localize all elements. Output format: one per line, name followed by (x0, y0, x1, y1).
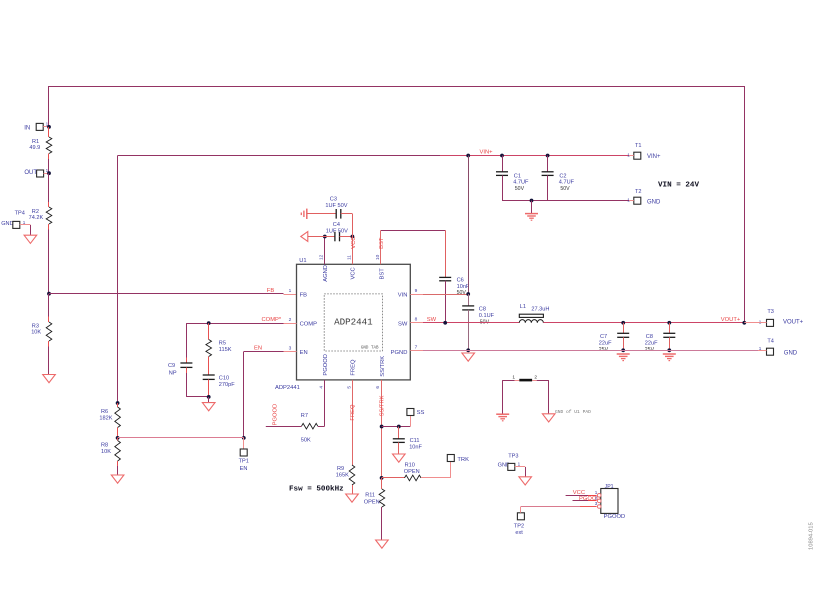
svg-text:L1: L1 (520, 304, 526, 310)
node SW BST (443, 321, 447, 325)
node EN TP1 (242, 436, 246, 440)
test point TP1 (239, 449, 249, 472)
resistor R3 (46, 294, 52, 374)
node C7 pgnd (621, 348, 625, 352)
svg-text:COMP*: COMP* (262, 317, 282, 323)
svg-text:OUT: OUT (24, 170, 37, 176)
svg-text:PGOOD: PGOOD (273, 404, 279, 426)
wire jumper left leg (502, 380, 504, 414)
svg-text:OPEN: OPEN (364, 499, 380, 505)
svg-text:182K: 182K (99, 416, 112, 422)
svg-text:EN: EN (240, 466, 248, 472)
svg-text:TRK: TRK (457, 457, 469, 463)
test point TRK pad (447, 455, 469, 464)
svg-text:1UF 50V: 1UF 50V (325, 203, 347, 209)
capacitor C2 (542, 156, 554, 201)
wire OUT pad stub (44, 173, 49, 175)
node EN divider (116, 436, 120, 440)
ground TP3 (519, 477, 532, 485)
resistor R1 (46, 127, 52, 173)
svg-text:T1: T1 (635, 143, 642, 149)
svg-text:27.3uH: 27.3uH (531, 307, 549, 313)
ground C8out bars (663, 353, 676, 355)
svg-text:50V: 50V (560, 186, 570, 192)
wire TP3 down (525, 467, 527, 477)
capacitor C4 (335, 232, 353, 242)
svg-text:COMP: COMP (300, 322, 318, 328)
svg-text:C6: C6 (457, 277, 464, 283)
ground R8 (111, 475, 124, 483)
capacitor C9 (180, 323, 192, 397)
resistor R9 (349, 465, 355, 494)
svg-text:C8: C8 (479, 306, 486, 312)
svg-text:NP: NP (169, 371, 177, 377)
ground input bars (525, 213, 538, 215)
svg-text:ext: ext (515, 530, 523, 536)
svg-text:4.7UF: 4.7UF (513, 180, 529, 186)
node C8 pgnd (466, 348, 470, 352)
svg-text:FB: FB (267, 288, 275, 294)
svg-text:1: 1 (595, 490, 598, 495)
node FB junction (47, 292, 51, 296)
wire FB net (49, 293, 284, 295)
wire top rail (VOUT sense loop) (49, 86, 744, 88)
svg-text:C4: C4 (333, 222, 340, 228)
svg-text:R6: R6 (101, 409, 108, 415)
svg-text:10nF: 10nF (409, 444, 422, 450)
wire T3 stub (744, 322, 766, 324)
svg-text:SS/TRK: SS/TRK (380, 356, 386, 377)
terminal T1 pad (627, 143, 641, 159)
svg-text:TP3: TP3 (508, 454, 518, 460)
svg-text:SS/TRK: SS/TRK (379, 395, 385, 416)
wire VCC pin 11 (352, 237, 354, 265)
wire input gnd stem (531, 201, 533, 214)
jumper pgnd-agnd tie (503, 374, 549, 381)
svg-text:C7: C7 (600, 334, 607, 340)
svg-text:50V: 50V (457, 290, 467, 296)
wire T2 stub (629, 200, 634, 202)
test point TP3 (498, 454, 521, 471)
ground C8 bypass (462, 353, 475, 361)
svg-text:1: 1 (627, 152, 630, 157)
wire AGND pin 12 (324, 237, 326, 265)
svg-text:R7: R7 (301, 413, 308, 419)
svg-text:FREQ: FREQ (351, 359, 357, 376)
svg-text:50V: 50V (515, 186, 525, 192)
node IN junction (47, 125, 51, 129)
svg-text:R5: R5 (219, 341, 226, 347)
wire TP4 stub (20, 224, 31, 226)
wire PGOOD stub left (266, 426, 302, 428)
svg-text:C11: C11 (410, 438, 420, 444)
svg-text:GND of U1 PAD: GND of U1 PAD (555, 409, 591, 415)
terminal IN pad (36, 121, 48, 130)
wire input gnd bus (502, 200, 629, 202)
svg-text:1UF 50V: 1UF 50V (326, 229, 348, 235)
svg-text:10nF: 10nF (457, 284, 470, 290)
svg-text:VIN+: VIN+ (480, 149, 494, 155)
terminal T4 pad (759, 338, 774, 355)
wire TP1 stub (243, 438, 245, 449)
wire EN drop (243, 352, 245, 438)
node COMP R5 top (207, 321, 211, 325)
test point TP2 (514, 513, 525, 536)
node VOUT (742, 321, 746, 325)
svg-text:TP4: TP4 (15, 211, 25, 217)
wire COMP net (209, 323, 284, 325)
node R6 top (116, 401, 120, 405)
node C8out top (667, 321, 671, 325)
svg-text:VCC: VCC (351, 267, 357, 279)
svg-text:GND: GND (784, 351, 798, 357)
svg-text:GND: GND (1, 221, 13, 227)
wire arrow to C4 (308, 236, 335, 238)
wire EN net (244, 351, 284, 353)
svg-text:C3: C3 (330, 197, 337, 203)
wire gnd to C3 (307, 213, 336, 215)
node VIN C8 (466, 292, 470, 296)
wire COMP gnd stem (208, 397, 210, 403)
svg-text:4.7UF: 4.7UF (559, 180, 575, 186)
svg-text:GND TAB: GND TAB (361, 346, 379, 350)
resistor R8 (115, 438, 121, 475)
svg-text:BST: BST (379, 268, 385, 280)
svg-text:SS: SS (417, 410, 425, 416)
wire SS branch (382, 426, 411, 428)
wire VIN+ rail left drop (117, 156, 119, 404)
svg-text:EN: EN (254, 345, 262, 351)
wire SS/TRK pin 6 drop (381, 380, 383, 478)
svg-text:2: 2 (289, 317, 292, 323)
svg-text:6: 6 (375, 386, 381, 389)
svg-text:OPEN: OPEN (404, 469, 420, 475)
node input gnd (530, 199, 534, 203)
wire PGND pin stub (410, 350, 423, 352)
svg-text:AGND: AGND (323, 265, 329, 282)
wire COMP pin stub (284, 323, 297, 325)
svg-text:PGND: PGND (391, 350, 408, 356)
svg-text:Fsw = 500kHz: Fsw = 500kHz (289, 485, 344, 493)
svg-text:3: 3 (289, 345, 292, 351)
wire C3 to VCC node (352, 214, 354, 237)
svg-text:FREQ: FREQ (350, 404, 356, 421)
svg-text:VIN: VIN (398, 293, 408, 299)
svg-text:10K: 10K (101, 449, 111, 455)
node VIN pin column top (466, 154, 470, 158)
node C7 top (621, 321, 625, 325)
capacitor C7 (617, 323, 629, 351)
svg-text:T3: T3 (767, 309, 774, 315)
svg-text:9: 9 (415, 288, 418, 294)
svg-text:22uF: 22uF (645, 341, 658, 347)
resistor R10 (382, 475, 451, 481)
svg-text:1: 1 (518, 461, 521, 466)
capacitor C11 (393, 427, 405, 454)
svg-text:JP1: JP1 (605, 484, 614, 490)
svg-text:C8: C8 (646, 334, 653, 340)
svg-text:1: 1 (512, 374, 515, 380)
capacitor C1 (496, 156, 508, 201)
wire PGND rail (423, 350, 758, 352)
svg-text:EN: EN (300, 350, 308, 356)
U1 pin names (300, 265, 408, 377)
terminal OUT pad (37, 168, 49, 177)
resistor R2 (46, 173, 52, 294)
svg-text:R11: R11 (365, 492, 375, 498)
wire SS pad riser (410, 415, 412, 426)
svg-text:SW: SW (398, 322, 408, 328)
svg-text:11: 11 (346, 255, 352, 260)
wire PGOOD pin 4 drop (324, 380, 326, 426)
svg-text:2: 2 (534, 374, 537, 380)
svg-text:VIN+: VIN+ (647, 154, 661, 160)
wire JP1 pin2 net (573, 500, 589, 502)
test point SS pad (407, 409, 425, 417)
ground TP4 (24, 235, 37, 243)
resistor R5 (206, 323, 212, 375)
resistor R11 (379, 478, 385, 540)
node OUT junction (47, 171, 51, 175)
svg-text:R8: R8 (101, 442, 108, 448)
svg-text:ADP2441: ADP2441 (334, 317, 373, 328)
svg-text:5: 5 (346, 386, 352, 389)
svg-text:1: 1 (627, 197, 630, 202)
wire L1 to VOUT (543, 322, 744, 324)
svg-text:IN: IN (24, 125, 30, 131)
svg-text:10K: 10K (31, 329, 41, 335)
svg-text:74.2K: 74.2K (29, 215, 44, 221)
svg-text:TP1: TP1 (239, 459, 249, 465)
ground C7 bars (617, 353, 630, 355)
ground C3 bars (306, 209, 308, 219)
wire right side of top rail down to VOUT node (744, 86, 746, 323)
svg-text:115K: 115K (219, 347, 232, 353)
svg-text:270pF: 270pF (219, 382, 235, 388)
svg-text:3: 3 (595, 501, 598, 506)
capacitor C8 output (663, 323, 675, 351)
ground R11 (376, 540, 389, 548)
svg-text:C9: C9 (168, 363, 175, 369)
wire VIN column (468, 156, 470, 295)
ground COMP network (202, 403, 215, 411)
svg-text:PGOOD: PGOOD (323, 354, 329, 376)
node C11 top (397, 425, 401, 429)
svg-text:VCC: VCC (351, 237, 357, 249)
svg-text:VIN = 24V: VIN = 24V (658, 182, 699, 190)
ground R3 (43, 375, 56, 383)
resistor R6 (115, 403, 121, 438)
svg-text:GND: GND (647, 199, 661, 205)
node AGND C4 (323, 235, 327, 239)
node C2 top (546, 154, 550, 158)
svg-text:T4: T4 (767, 338, 774, 344)
node SS junction (380, 425, 384, 429)
wire BST horizontal (381, 230, 445, 232)
inductor L1 (519, 314, 543, 323)
node COMP gnd (207, 395, 211, 399)
op-amp U1 ADP2441 body (297, 264, 411, 380)
svg-text:4: 4 (319, 386, 325, 389)
svg-text:1: 1 (289, 288, 292, 294)
wire BST pin 10 up (380, 230, 382, 264)
svg-text:PGOOD: PGOOD (604, 514, 626, 520)
wire jumper right leg (548, 380, 550, 414)
ground jumper triangle (542, 414, 555, 422)
svg-text:T2: T2 (635, 189, 642, 195)
wire TP2 riser (520, 507, 522, 513)
wire TP3 stub (515, 466, 525, 468)
terminal T3 pad (759, 309, 774, 326)
wire BST drop to C6 (445, 230, 447, 277)
node C8out pgnd (667, 348, 671, 352)
wire IN pad stub (43, 126, 49, 128)
capacitor C3 (336, 209, 352, 219)
wire SW pin stub (410, 322, 423, 324)
svg-text:165K: 165K (336, 473, 349, 479)
terminal T2 pad (627, 189, 641, 204)
wire COMP left branch (186, 323, 208, 325)
wire SW to L1 (423, 322, 519, 324)
svg-text:R10: R10 (405, 463, 415, 469)
wire EN pin stub (284, 351, 297, 353)
wire VIN pin stub (410, 294, 423, 296)
ground C11 (393, 454, 406, 462)
svg-text:C10: C10 (219, 375, 229, 381)
svg-text:49.9: 49.9 (29, 145, 40, 151)
node VCC junction (351, 235, 355, 239)
svg-text:12: 12 (319, 254, 325, 260)
wire TRK riser (450, 462, 452, 478)
wire VIN pin net (423, 294, 468, 296)
ground jumper bars (496, 413, 509, 415)
ground R9 (346, 494, 359, 502)
svg-text:BST: BST (379, 237, 385, 249)
capacitor C8 bypass (462, 294, 474, 350)
node C1 top (500, 154, 504, 158)
svg-text:2: 2 (595, 496, 598, 501)
U1 pin numbers (319, 254, 418, 388)
svg-text:50K: 50K (301, 437, 311, 443)
wire FREQ pin 5 drop (352, 380, 354, 465)
wire TP4 down (30, 225, 32, 235)
wire FB pin stub (284, 294, 297, 296)
wire COMP network bottom (186, 396, 208, 398)
svg-text:VOUT+: VOUT+ (783, 319, 804, 325)
wire EN divider to TP1 (118, 437, 244, 439)
svg-text:VOUT+: VOUT+ (721, 317, 741, 323)
ground AGND arrow (301, 232, 308, 242)
svg-text:FB: FB (300, 293, 308, 299)
svg-text:7: 7 (415, 344, 418, 350)
wire left rail top segment (48, 86, 50, 127)
svg-text:ADP2441: ADP2441 (275, 385, 300, 391)
svg-text:8: 8 (415, 316, 418, 322)
svg-text:U1: U1 (299, 258, 306, 264)
wire VIN+ rail (118, 155, 629, 157)
svg-text:10894-015: 10894-015 (809, 522, 815, 550)
node R10 R11 (380, 476, 384, 480)
svg-text:TP2: TP2 (514, 524, 524, 530)
wire T4 stub (758, 350, 767, 352)
capacitor C10 (203, 375, 215, 397)
wire JP1 pin1 net (566, 495, 588, 497)
svg-text:1: 1 (759, 319, 762, 324)
wire JP1 pin3 net (521, 506, 580, 508)
svg-text:22uF: 22uF (599, 341, 612, 347)
wire T1 stub (629, 155, 634, 157)
connector JP1 (595, 484, 618, 513)
svg-text:R9: R9 (337, 466, 344, 472)
test point TP4 (1, 211, 26, 229)
resistor R7 (302, 423, 325, 429)
svg-text:0.1UF: 0.1UF (479, 313, 495, 319)
capacitor C6 (439, 277, 451, 322)
